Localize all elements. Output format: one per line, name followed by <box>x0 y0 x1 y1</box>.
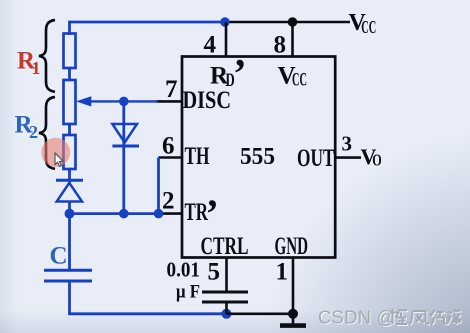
svg-text:’: ’ <box>206 191 219 236</box>
svg-text:μ F: μ F <box>176 282 200 303</box>
wire: Vcc rail blue segment (top left horizontal + vertical to R1) <box>70 22 227 35</box>
wire node A down to capacitor C <box>68 214 71 270</box>
label Vcc (top right supply) <box>349 10 377 37</box>
wire between R1 and potentiometer <box>68 68 71 80</box>
svg-text:CC: CC <box>361 17 376 37</box>
potentiometer wiper arrow to pin 7 <box>76 96 158 106</box>
brace for R1 <box>39 20 55 92</box>
svg-text:7: 7 <box>165 76 178 103</box>
svg-text:3: 3 <box>342 132 353 156</box>
junction node at pin8 / Vcc rail <box>288 17 298 27</box>
mouse cursor <box>55 153 63 167</box>
pin 5 stub <box>225 258 228 292</box>
pin 8 stub <box>291 22 294 57</box>
junction node bottom rail / 0.01uF <box>222 309 232 319</box>
wire diode D1 to node A <box>68 202 71 214</box>
label Vcc (pin8, inside box) <box>278 63 308 91</box>
svg-text:C: C <box>50 243 68 270</box>
wire capacitor C to bottom rail <box>70 281 228 314</box>
svg-text:0.01: 0.01 <box>167 258 201 282</box>
label TR' <box>185 191 219 236</box>
svg-text:555: 555 <box>240 144 275 170</box>
svg-text:DISC: DISC <box>183 87 232 114</box>
label R2 <box>15 112 39 142</box>
label RD' (reset, inside box) <box>210 50 247 96</box>
wire bottom rail black segment to ground <box>227 312 294 315</box>
resistor R2 lower box <box>64 135 76 169</box>
svg-text:2: 2 <box>29 122 38 142</box>
junction node ground <box>288 309 298 319</box>
diode D1 (left, cathode up) <box>56 180 83 201</box>
watermark CSDN @suifengwangxi <box>318 307 462 329</box>
svg-text:CTRL: CTRL <box>201 233 249 260</box>
wire TH to TR tie (vertical) <box>157 158 160 214</box>
label R1 <box>17 48 41 78</box>
IC U1 555 box <box>182 57 335 258</box>
svg-text:8: 8 <box>274 32 287 59</box>
svg-text:OUT: OUT <box>297 145 335 172</box>
capacitor 0.01uF plates <box>202 292 248 302</box>
pin 1 stub <box>292 258 295 314</box>
svg-text:1: 1 <box>32 58 41 78</box>
junction node TH/TR tie <box>154 209 164 219</box>
wire between potentiometer and R2 lower box <box>68 124 71 135</box>
cursor highlight circle <box>41 138 70 167</box>
junction node wiper/diode branch <box>119 97 129 107</box>
potentiometer body (R1/R2 divider) <box>64 80 76 124</box>
pin 3 stub <box>335 156 361 159</box>
resistor R1 upper box <box>64 34 76 69</box>
svg-text:CSDN @: CSDN @ <box>318 307 396 328</box>
wire diode D2 branch (vertical through diode) <box>122 101 125 213</box>
wire: Vcc rail black segment to Vcc label <box>224 21 350 24</box>
svg-text:6: 6 <box>162 133 175 160</box>
value label 0.01 uF <box>167 258 201 303</box>
wire R2 to diode D1 <box>68 169 71 183</box>
svg-text:CC: CC <box>292 70 307 91</box>
brace for R2 <box>39 97 55 169</box>
svg-text:5: 5 <box>208 259 221 286</box>
svg-text:1: 1 <box>276 259 289 286</box>
svg-text:’: ’ <box>233 50 247 96</box>
pin 7 stub <box>156 100 182 103</box>
ground symbol <box>280 314 306 326</box>
pin 6 stub <box>159 156 183 159</box>
label Vo (output) <box>361 144 382 170</box>
wire node A to pin 2 (TR) <box>70 212 161 215</box>
svg-text:TH: TH <box>185 143 210 170</box>
junction node D2 branch at TR wire <box>119 209 129 219</box>
junction node at pin4 / Vcc rail <box>220 17 230 27</box>
svg-text:4: 4 <box>204 32 217 59</box>
pin 2 stub <box>159 212 183 215</box>
svg-text:2: 2 <box>162 188 175 215</box>
capacitor C plates <box>44 270 92 281</box>
node A junction (cap top) <box>65 209 75 219</box>
pin 4 stub <box>225 22 228 57</box>
svg-text:GND: GND <box>275 233 309 260</box>
wire 0.01uF to bottom rail <box>225 302 228 314</box>
diode D2 (middle, cathode down) <box>112 124 139 146</box>
svg-text:O: O <box>372 151 382 170</box>
